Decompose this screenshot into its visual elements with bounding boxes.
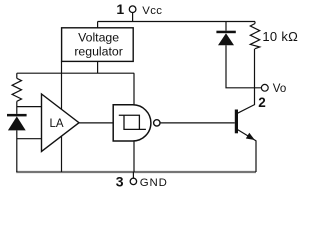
voltage regulator U1 box <box>62 28 134 62</box>
gate output bubble <box>154 120 160 126</box>
wire Vcc to regulator top <box>97 22 99 28</box>
photodiode D1 body <box>8 116 26 130</box>
protection diode D2 body <box>218 33 234 45</box>
svg-text:10 kΩ: 10 kΩ <box>262 29 298 44</box>
op-amp U2 LA triangle <box>42 94 80 151</box>
svg-text:Vo: Vo <box>273 83 286 95</box>
svg-text:3: 3 <box>116 173 124 189</box>
protection diode D2 cathode bar <box>216 31 235 34</box>
pin 3 terminal circle <box>130 178 136 184</box>
schmitt NAND gate U3 body <box>113 105 151 141</box>
pin 2 terminal circle <box>261 84 268 91</box>
wire gate top supply <box>133 73 135 105</box>
schmitt hysteresis symbol <box>119 115 146 129</box>
svg-text:Vcc: Vcc <box>142 5 162 17</box>
pin 3 stem <box>132 172 134 178</box>
wire amp output to gate input <box>79 122 113 124</box>
pin 1 terminal circle <box>129 6 136 13</box>
svg-text:2: 2 <box>258 95 266 110</box>
wire gate output to transistor base <box>160 122 235 124</box>
photodiode D1 cathode bar <box>7 114 27 117</box>
wire Vcc top rail <box>98 21 255 23</box>
svg-text:regulator: regulator <box>74 44 123 58</box>
wire gate bottom to ground <box>133 141 135 172</box>
transistor Q1 base bar <box>235 110 238 134</box>
svg-text:1: 1 <box>116 1 124 17</box>
wire amp input upper <box>17 106 42 108</box>
svg-text:GND: GND <box>140 177 168 189</box>
wire photodiode anode to ground <box>16 130 18 172</box>
wire left branch top <box>16 73 18 78</box>
wire Vcc to protection diode D2 <box>225 22 227 31</box>
resistor R2 10k pull-up zigzag <box>250 24 259 49</box>
wire R1 to photodiode D1 <box>16 101 18 114</box>
wire Vcc to resistor R2 <box>254 22 256 24</box>
wire amp input lower <box>17 138 42 140</box>
ground rail <box>16 171 256 173</box>
wire regulator left edge drop to ground <box>61 61 63 172</box>
transistor Q1 emitter arrowhead <box>246 133 255 140</box>
wire internal supply rail <box>17 72 134 74</box>
pin 1 stem <box>132 13 134 22</box>
svg-text:Voltage: Voltage <box>78 30 119 44</box>
transistor Q1 collector <box>238 88 255 113</box>
transistor Q1 emitter <box>238 130 256 172</box>
wire D2 anode to Vo node <box>226 45 262 88</box>
wire regulator bottom to internal rail <box>97 61 99 73</box>
resistor R1 left bias zigzag <box>12 78 21 101</box>
wire R2 to collector junction <box>254 49 256 88</box>
svg-text:LA: LA <box>49 118 63 130</box>
